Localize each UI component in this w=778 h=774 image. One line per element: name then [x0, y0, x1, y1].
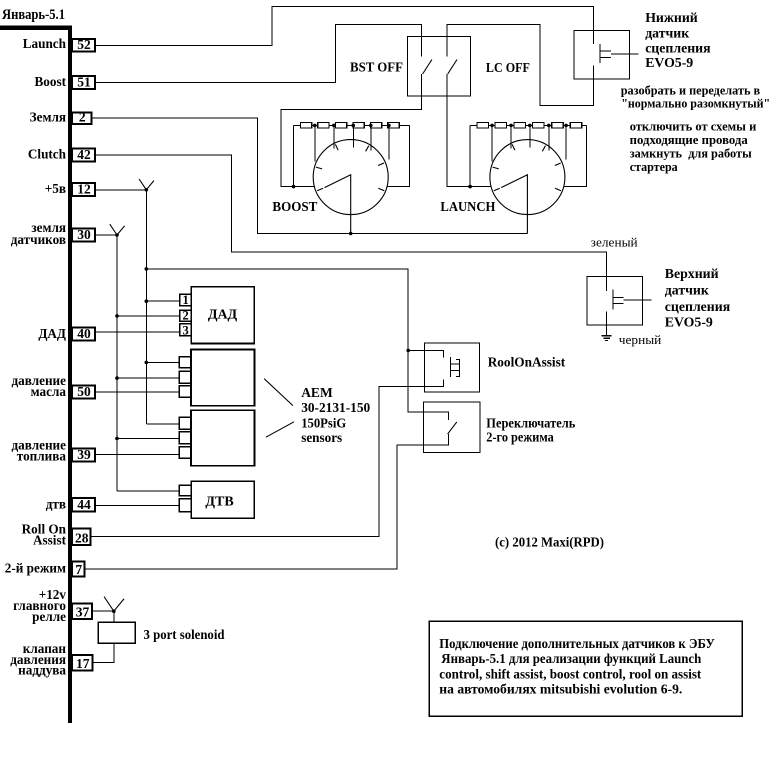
LAUNCH rotor circle — [490, 140, 565, 215]
LAUNCH tap junction 1 — [490, 124, 494, 128]
svg-text:44: 44 — [77, 497, 91, 512]
3 port solenoid box — [98, 622, 135, 643]
wire +12v down to solenoid — [113, 611, 115, 622]
LAUNCH ladder resistor 3 — [514, 123, 525, 128]
ECU pin 52 box — [72, 39, 95, 52]
svg-text:BST OFF: BST OFF — [350, 60, 403, 75]
LAUNCH wiper arm — [501, 175, 527, 234]
BOOST tap contact 2 — [333, 125, 335, 148]
fuel sensor pin 1 box — [179, 417, 191, 429]
svg-text:Assist: Assist — [33, 532, 67, 547]
svg-text:Январь-5.1 для реализации функ: Январь-5.1 для реализации функций Launch — [441, 651, 702, 666]
rotary selector LAUNCH: resistor ladder bus — [470, 124, 586, 126]
lower clutch sensor contact blade — [599, 44, 601, 63]
ECU pin 7 box — [72, 562, 85, 577]
wire pin17 to solenoid — [93, 643, 114, 662]
LAUNCH tap contact 5 — [565, 125, 567, 159]
svg-text:BOOST: BOOST — [272, 199, 317, 214]
svg-text:(c) 2012 Maxi(RPD): (c) 2012 Maxi(RPD) — [495, 534, 604, 550]
svg-text:40: 40 — [77, 326, 91, 341]
ДАД pin 3 — [180, 324, 192, 336]
svg-text:2-го режима: 2-го режима — [486, 430, 554, 445]
wire +5v vertical bus — [145, 190, 147, 424]
svg-text:EVO5-9: EVO5-9 — [665, 314, 713, 329]
lower clutch sensor box — [574, 30, 630, 79]
lower clutch sensor actuator — [600, 51, 639, 58]
ECU pin 30 box — [72, 229, 95, 242]
MAP sensor ДАД box — [191, 287, 254, 344]
wire ground to oil sensor pin2 — [117, 377, 180, 379]
svg-text:сцепления: сцепления — [665, 299, 731, 314]
oil sensor pin 3 box — [179, 386, 191, 398]
BOOST tap contact 5 — [388, 125, 390, 159]
upper clutch sensor contact blade — [612, 290, 614, 310]
svg-text:сцепления: сцепления — [645, 41, 711, 56]
wire pin50 to oil sensor pin3 — [95, 391, 180, 393]
fuel pressure sensor box (AEM) — [191, 410, 255, 466]
LAUNCH ladder resistor 6 — [570, 123, 581, 128]
svg-text:подходящие провода: подходящие провода — [630, 133, 749, 147]
svg-text:LAUNCH: LAUNCH — [440, 199, 495, 214]
callout line to fuel sensor — [266, 422, 294, 437]
wire pin52 Launch to lower clutch sensor — [95, 7, 594, 46]
ECU pin 28 box — [72, 529, 91, 546]
svg-text:Верхний: Верхний — [665, 266, 719, 281]
BOOST tap junction 3 — [352, 124, 356, 128]
junction sensor-ground node — [115, 233, 119, 237]
ECU pin 37 box — [72, 604, 92, 620]
upper clutch sensor box — [587, 277, 642, 325]
svg-text:30: 30 — [77, 227, 91, 242]
svg-text:релле: релле — [32, 609, 66, 624]
RoolOnAssist actuator bracket — [451, 359, 460, 376]
wire pin2 ground bus to potentiometer wipers — [92, 118, 528, 234]
wire BST OFF switch to BOOST pot wiper-row — [281, 74, 422, 187]
LAUNCH tap junction 5 — [564, 124, 568, 128]
junction ground to fuel sensor pin2 — [115, 437, 119, 441]
svg-text:42: 42 — [77, 147, 91, 162]
air-temp sensor ДТВ box — [191, 481, 254, 518]
svg-text:"нормально разомкнутый": "нормально разомкнутый" — [621, 97, 770, 111]
svg-text:+5в: +5в — [45, 181, 66, 196]
svg-text:30-2131-150: 30-2131-150 — [301, 400, 370, 415]
svg-text:Подключение дополнительных дат: Подключение дополнительных датчиков к ЭБ… — [439, 636, 715, 651]
svg-text:17: 17 — [76, 656, 90, 671]
junction +5v to oil sensor pin1 — [145, 361, 149, 365]
LAUNCH tap contact 3 — [529, 125, 531, 147]
svg-text:AEM: AEM — [301, 385, 333, 400]
fuel sensor pin 3 box — [179, 447, 191, 459]
callout line to oil sensor — [264, 379, 293, 406]
svg-text:EVO5-9: EVO5-9 — [645, 55, 693, 70]
svg-text:52: 52 — [77, 37, 91, 52]
ДАД pin 1 — [180, 294, 192, 306]
svg-text:ДТВ: ДТВ — [205, 494, 233, 509]
LAUNCH tap contact 2 — [510, 125, 512, 148]
ECU pin 2 box — [72, 113, 92, 125]
junction +5v to MAP pin1 — [145, 299, 149, 303]
oil sensor pin 2 box — [179, 371, 191, 383]
junction BOOST wiper to ground bus — [349, 232, 353, 236]
BOOST tap contact 4 — [370, 125, 372, 150]
svg-text:дтв: дтв — [46, 497, 66, 512]
svg-text:1: 1 — [182, 293, 188, 307]
BOOST position ticks — [316, 144, 384, 190]
svg-text:37: 37 — [76, 604, 90, 619]
ECU pin 50 box — [72, 386, 95, 399]
BOOST ladder resistor 6 — [388, 123, 399, 128]
switch box BST OFF / LC OFF — [408, 36, 471, 96]
svg-text:2: 2 — [79, 109, 86, 124]
ДТВ pin 1 box — [179, 485, 191, 496]
ECU connector edge (thick line) — [0, 26, 72, 723]
junction ground to oil sensor pin2 — [115, 376, 119, 380]
LAUNCH ladder resistor 4 — [533, 123, 544, 128]
svg-text:датчик: датчик — [665, 283, 709, 298]
LAUNCH tap junction 4 — [547, 124, 551, 128]
svg-text:ДАД: ДАД — [38, 326, 66, 341]
LAUNCH ladder left junction — [468, 185, 472, 189]
junction +12v node — [112, 609, 116, 613]
svg-text:ДАД: ДАД — [208, 308, 238, 323]
mode switch box — [424, 402, 481, 452]
svg-text:sensors: sensors — [301, 430, 342, 445]
BOOST ladder resistor 3 — [335, 123, 346, 128]
wire pin42 Clutch to upper clutch sensor (зеленый) — [95, 155, 607, 291]
oil pressure sensor box (AEM) — [191, 350, 255, 406]
RoolOnAssist switch box — [425, 343, 480, 392]
LAUNCH ladder resistor 2 — [495, 123, 506, 128]
svg-text:наддува: наддува — [18, 663, 66, 678]
svg-text:Boost: Boost — [34, 74, 66, 89]
svg-text:50: 50 — [77, 384, 91, 399]
wire pin12 +5v feed — [95, 189, 146, 191]
LAUNCH ladder resistor 5 — [552, 123, 563, 128]
svg-text:39: 39 — [77, 447, 91, 462]
LAUNCH position ticks — [493, 144, 561, 190]
svg-text:на автомобилях mitsubishi evol: на автомобилях mitsubishi evolution 6-9. — [439, 682, 682, 697]
svg-text:Clutch: Clutch — [28, 146, 67, 161]
ECU pin 40 box — [72, 328, 95, 341]
wire RoolOnAssist top contact — [408, 350, 443, 357]
rotary selector BOOST: resistor ladder bus — [294, 124, 410, 126]
LAUNCH ladder left leg — [469, 125, 471, 186]
ECU pin 39 box — [72, 449, 95, 462]
LAUNCH tap junction 2 — [509, 124, 513, 128]
svg-text:control, shift assist, boost c: control, shift assist, boost control, ro… — [439, 666, 702, 681]
wire +5v to oil sensor pin1 — [146, 361, 179, 363]
svg-text:Переключатель: Переключатель — [486, 415, 575, 430]
svg-text:LC OFF: LC OFF — [486, 60, 530, 75]
svg-text:отключить от схемы и: отключить от схемы и — [630, 119, 757, 133]
junction +5v to mode-switch branch — [145, 267, 149, 271]
BOOST ladder resistor 5 — [370, 123, 381, 128]
svg-text:7: 7 — [75, 562, 82, 577]
wire pin28 to RoolOnAssist switch — [91, 379, 444, 536]
ECU pin 51 box — [72, 76, 95, 89]
BOOST ladder left junction — [292, 185, 296, 189]
ground symbol (черный) — [602, 336, 612, 341]
upper clutch sensor actuator — [613, 298, 651, 304]
wire pin39 to fuel sensor pin3 — [95, 454, 180, 456]
fuel sensor pin 2 box — [179, 432, 191, 444]
wire ground to air-temp sensor pin1 — [117, 490, 180, 492]
svg-text:стартера: стартера — [630, 160, 679, 174]
wire sensor-ground vertical bus — [116, 235, 118, 491]
BOOST tap junction 4 — [369, 124, 373, 128]
LAUNCH tap contact 1 — [491, 125, 493, 161]
BOOST tap junction 5 — [387, 124, 391, 128]
LAUNCH ladder right leg — [564, 125, 587, 186]
wire pin40 to MAP pin3 — [95, 331, 180, 333]
LAUNCH ladder resistor 1 — [477, 123, 488, 128]
oil sensor pin 1 box — [179, 357, 191, 368]
svg-text:топлива: топлива — [17, 448, 67, 463]
ECU pin 12 box — [72, 183, 95, 196]
svg-text:12: 12 — [77, 181, 91, 196]
BOOST tap contact 1 — [314, 125, 316, 161]
svg-text:разобрать и переделать в: разобрать и переделать в — [621, 83, 761, 97]
svg-text:28: 28 — [75, 530, 89, 545]
LAUNCH tap contact 4 — [548, 125, 550, 150]
svg-text:Нижний: Нижний — [645, 10, 698, 25]
wire LC OFF switch to LAUNCH pot wiper-row — [447, 74, 491, 187]
svg-text:зеленый: зеленый — [591, 236, 638, 250]
junction +5v bus to RoolOnAssist — [406, 349, 410, 353]
wire +5v to MAP pin1 — [146, 300, 180, 302]
switch BST OFF contact — [423, 60, 432, 75]
ДТВ pin 2 box — [179, 499, 191, 512]
wire pin51 Boost to BST OFF switch — [95, 25, 422, 83]
wire pin37 +12v to solenoid — [92, 610, 114, 612]
ECU pin 17 box — [72, 655, 93, 671]
switch LC OFF contact — [448, 60, 457, 75]
wire +5v branch to switches — [146, 269, 448, 420]
BOOST wiper arm — [325, 175, 351, 234]
wire +5v to fuel sensor pin1 — [146, 423, 179, 425]
BOOST ladder right leg — [387, 125, 410, 186]
svg-text:3 port solenoid: 3 port solenoid — [144, 627, 225, 642]
BOOST ladder resistor 2 — [318, 123, 329, 128]
svg-text:датчик: датчик — [645, 25, 689, 40]
svg-text:Launch: Launch — [23, 36, 67, 51]
wire pin7 to mode switch — [85, 434, 449, 569]
junction +5v distribution node — [145, 188, 149, 192]
RoolOnAssist contact blade — [450, 357, 452, 377]
BOOST tap junction 2 — [332, 124, 336, 128]
svg-text:датчиков: датчиков — [11, 232, 66, 247]
wire pin44 to air-temp sensor pin2 — [95, 505, 180, 507]
ECU pin 42 box — [72, 149, 95, 162]
BOOST tap junction 1 — [313, 124, 317, 128]
description text box — [429, 621, 742, 716]
wire ground to MAP pin2 — [117, 315, 180, 317]
wire upper clutch sensor to ground — [606, 311, 608, 335]
svg-text:черный: черный — [619, 333, 662, 347]
wire LC OFF top feed from lower clutch sensor — [447, 25, 594, 106]
LAUNCH tap junction 3 — [528, 124, 532, 128]
svg-text:2: 2 — [182, 309, 188, 323]
svg-text:150PsiG: 150PsiG — [301, 415, 346, 430]
ECU pin 44 box — [72, 498, 95, 512]
svg-text:Земля: Земля — [30, 110, 66, 125]
svg-text:2-й режим: 2-й режим — [5, 561, 66, 576]
svg-text:51: 51 — [77, 74, 91, 89]
BOOST ladder resistor 1 — [300, 123, 311, 128]
svg-text:3: 3 — [182, 323, 188, 337]
wire pin30 sensor-ground feed — [95, 234, 117, 236]
svg-text:масла: масла — [31, 384, 67, 399]
BOOST tap contact 3 — [352, 125, 354, 147]
svg-text:замкнуть для работы: замкнуть для работы — [630, 146, 752, 160]
junction ground to MAP pin2 — [115, 314, 119, 318]
BOOST rotor circle — [313, 140, 388, 215]
junction LAUNCH ladder-left to LC OFF wire — [468, 185, 472, 189]
mode switch contact — [448, 422, 457, 434]
BOOST ladder resistor 4 — [353, 123, 364, 128]
BOOST ladder left leg — [293, 125, 295, 186]
svg-text:Январь-5.1: Январь-5.1 — [2, 7, 65, 23]
wire ground to fuel sensor pin2 — [117, 437, 180, 439]
ДАД pin 2 — [180, 310, 192, 321]
svg-text:RoolOnAssist: RoolOnAssist — [488, 355, 566, 370]
